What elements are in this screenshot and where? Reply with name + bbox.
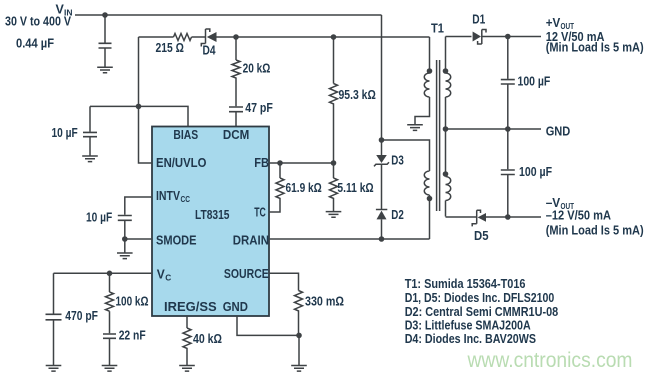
net label -VOUT: [546, 196, 644, 237]
transformer core: [437, 60, 440, 211]
resistor 5.11 kohm: [330, 163, 374, 212]
svg-text:GND: GND: [223, 300, 248, 314]
resistor 40 kohm: [183, 328, 222, 366]
svg-text:TC: TC: [254, 206, 266, 220]
wire IREG/SS: [186, 316, 188, 328]
svg-text:0.44 µF: 0.44 µF: [16, 37, 54, 51]
svg-text:IREG/SS: IREG/SS: [164, 300, 217, 314]
svg-text:FB: FB: [254, 156, 269, 170]
winding primary (left bottom): [382, 140, 430, 239]
winding secondary- (right bottom): [446, 129, 451, 217]
svg-text:100 kΩ: 100 kΩ: [116, 295, 149, 309]
svg-text:+V: +V: [546, 16, 561, 30]
ground (bias winding): [407, 125, 423, 131]
phase dot primary winding: [427, 196, 433, 202]
svg-text:www.cntronics.com: www.cntronics.com: [467, 348, 633, 372]
node secondary GND junction: [443, 126, 449, 132]
svg-text:30 V to 400 V: 30 V to 400 V: [5, 15, 72, 29]
node +VOUT/100uF junction: [505, 34, 511, 40]
node GND/100uF junction: [505, 126, 511, 132]
node bias/95.3k junction: [331, 34, 337, 40]
svg-text:D4: D4: [203, 44, 216, 58]
ground (22 nF): [102, 366, 118, 372]
svg-text:EN/UVLO: EN/UVLO: [156, 156, 207, 170]
wire bias node vertical: [138, 37, 140, 106]
svg-text:(Min Load Is 5 mA): (Min Load Is 5 mA): [546, 41, 644, 55]
svg-text:GND: GND: [546, 125, 571, 139]
ground (GND pin): [291, 335, 307, 371]
ground (40 kohm): [179, 366, 195, 372]
wire EN/UVLO: [139, 106, 153, 163]
capacitor 100 uF (top): [501, 37, 551, 130]
node FB/95.3k/5.11k junction: [331, 160, 337, 166]
svg-text:LT8315: LT8315: [195, 208, 230, 222]
svg-text:330 mΩ: 330 mΩ: [305, 295, 344, 309]
wire VC: [54, 272, 153, 274]
svg-text:22 nF: 22 nF: [119, 329, 146, 343]
node GND/330m junction: [296, 333, 302, 339]
wire +VOUT: [482, 36, 541, 38]
svg-text:10 µF: 10 µF: [52, 126, 78, 140]
op-amp U1 LT8315 IC body: [152, 127, 269, 317]
wire GND rail: [446, 128, 542, 130]
node VC/100k junction: [107, 271, 113, 277]
wire GND pin: [237, 316, 299, 335]
svg-text:–12 V/50 mA: –12 V/50 mA: [546, 209, 611, 223]
wire FB: [269, 162, 334, 164]
svg-text:(Min Load Is 5 mA): (Min Load Is 5 mA): [546, 223, 644, 237]
svg-text:D3: D3: [391, 154, 404, 168]
capacitor 47 pF: [229, 79, 273, 127]
node FB/61.9k junction: [277, 160, 283, 166]
ground (INTVCC cap): [117, 253, 133, 259]
svg-text:T1: Sumida 15364-T016: T1: Sumida 15364-T016: [405, 277, 526, 291]
svg-text:215 Ω: 215 Ω: [156, 41, 184, 55]
svg-text:D5: D5: [474, 229, 489, 243]
node VIN input cap junction: [102, 12, 108, 18]
svg-text:5.11 kΩ: 5.11 kΩ: [337, 181, 373, 195]
svg-text:100 µF: 100 µF: [518, 74, 551, 88]
net label +VOUT: [546, 16, 644, 55]
svg-text:D1, D5: Diodes Inc. DFLS2100: D1, D5: Diodes Inc. DFLS2100: [405, 291, 555, 305]
svg-text:BIAS: BIAS: [173, 128, 198, 142]
winding secondary+ (right top): [446, 37, 451, 130]
svg-text:47 pF: 47 pF: [245, 101, 273, 115]
resistor 215 ohm: [156, 34, 192, 56]
wire VIN top rail: [75, 14, 382, 16]
resistor 20 kohm: [232, 37, 270, 79]
node bias/20k junction: [233, 34, 239, 40]
diode D3 (TVS): [374, 140, 404, 168]
net label VIN: [5, 3, 73, 29]
svg-text:T1: T1: [431, 22, 444, 36]
svg-text:DCM: DCM: [223, 128, 249, 142]
svg-text:D2: D2: [391, 208, 404, 222]
node INTVCC cap / SMODE junction: [122, 236, 128, 242]
resistor 95.3 kohm: [330, 37, 376, 163]
svg-text:20 kΩ: 20 kΩ: [243, 62, 271, 76]
resistor 330 mohm: [295, 291, 345, 336]
svg-text:SOURCE: SOURCE: [224, 267, 269, 281]
capacitor 470 pF: [46, 273, 99, 365]
ground (470 pF): [46, 366, 62, 372]
svg-text:100 µF: 100 µF: [519, 165, 552, 179]
wire VIN vertical drop to clamp/primary: [381, 15, 383, 140]
svg-text:D2: Central Semi CMMR1U-08: D2: Central Semi CMMR1U-08: [405, 305, 559, 319]
svg-text:CC: CC: [181, 194, 191, 204]
ground (10 uF BIAS): [82, 156, 98, 162]
diode D2: [376, 208, 404, 239]
svg-text:470 pF: 470 pF: [65, 309, 98, 323]
svg-text:SMODE: SMODE: [156, 234, 197, 248]
resistor 100 kohm: [106, 273, 149, 311]
wire -VOUT: [486, 216, 541, 218]
svg-text:61.9 kΩ: 61.9 kΩ: [286, 181, 322, 195]
capacitor 100 uF (bottom): [501, 129, 553, 217]
transformer T1: [382, 22, 451, 240]
svg-text:D1: D1: [472, 13, 485, 27]
capacitor 10 uF (INTVCC): [86, 211, 132, 254]
wire SMODE: [125, 238, 152, 240]
phase dot bias winding: [427, 68, 433, 74]
node bias/10uF/EN junction: [136, 104, 142, 110]
capacitor 22 nF: [103, 311, 146, 365]
wire BIAS pin to bias node: [90, 106, 188, 126]
svg-text:D3: Littlefuse SMAJ200A: D3: Littlefuse SMAJ200A: [405, 318, 531, 332]
capacitor 0.44 uF: [16, 15, 112, 67]
wire secondary+ to D1: [446, 36, 472, 38]
svg-text:C: C: [165, 273, 171, 283]
ground (5.11 kohm): [326, 212, 342, 218]
svg-text:40 kΩ: 40 kΩ: [193, 332, 222, 346]
svg-text:95.3 kΩ: 95.3 kΩ: [339, 88, 376, 102]
ground (0.44 uF): [97, 67, 113, 73]
note parts list: [405, 277, 559, 346]
svg-text:INTV: INTV: [156, 189, 181, 203]
svg-text:10 µF: 10 µF: [86, 211, 112, 225]
wire DRAIN: [269, 238, 430, 240]
wire secondary- to D5: [446, 216, 477, 218]
wire SOURCE: [269, 273, 299, 290]
diode D5: [472, 210, 488, 243]
diode D4: [201, 29, 216, 58]
wire INTVCC: [125, 197, 152, 215]
resistor 61.9 kohm: [269, 163, 322, 212]
phase dot secondary+ winding: [443, 68, 449, 74]
svg-text:DRAIN: DRAIN: [233, 234, 269, 248]
diode D1: [472, 13, 486, 45]
node VIN/clamp/primary junction: [379, 137, 385, 143]
node -VOUT/100uF junction: [505, 214, 511, 220]
wire D3-D2: [381, 164, 383, 209]
svg-text:D4: Diodes Inc. BAV20WS: D4: Diodes Inc. BAV20WS: [405, 332, 536, 346]
winding bias (left top): [415, 37, 430, 125]
node DRAIN/D2 junction: [379, 236, 385, 242]
svg-text:V: V: [157, 268, 166, 282]
phase dot secondary- winding: [443, 171, 449, 177]
wire bias line: [139, 36, 430, 38]
capacitor 10 uF (BIAS): [52, 106, 98, 156]
